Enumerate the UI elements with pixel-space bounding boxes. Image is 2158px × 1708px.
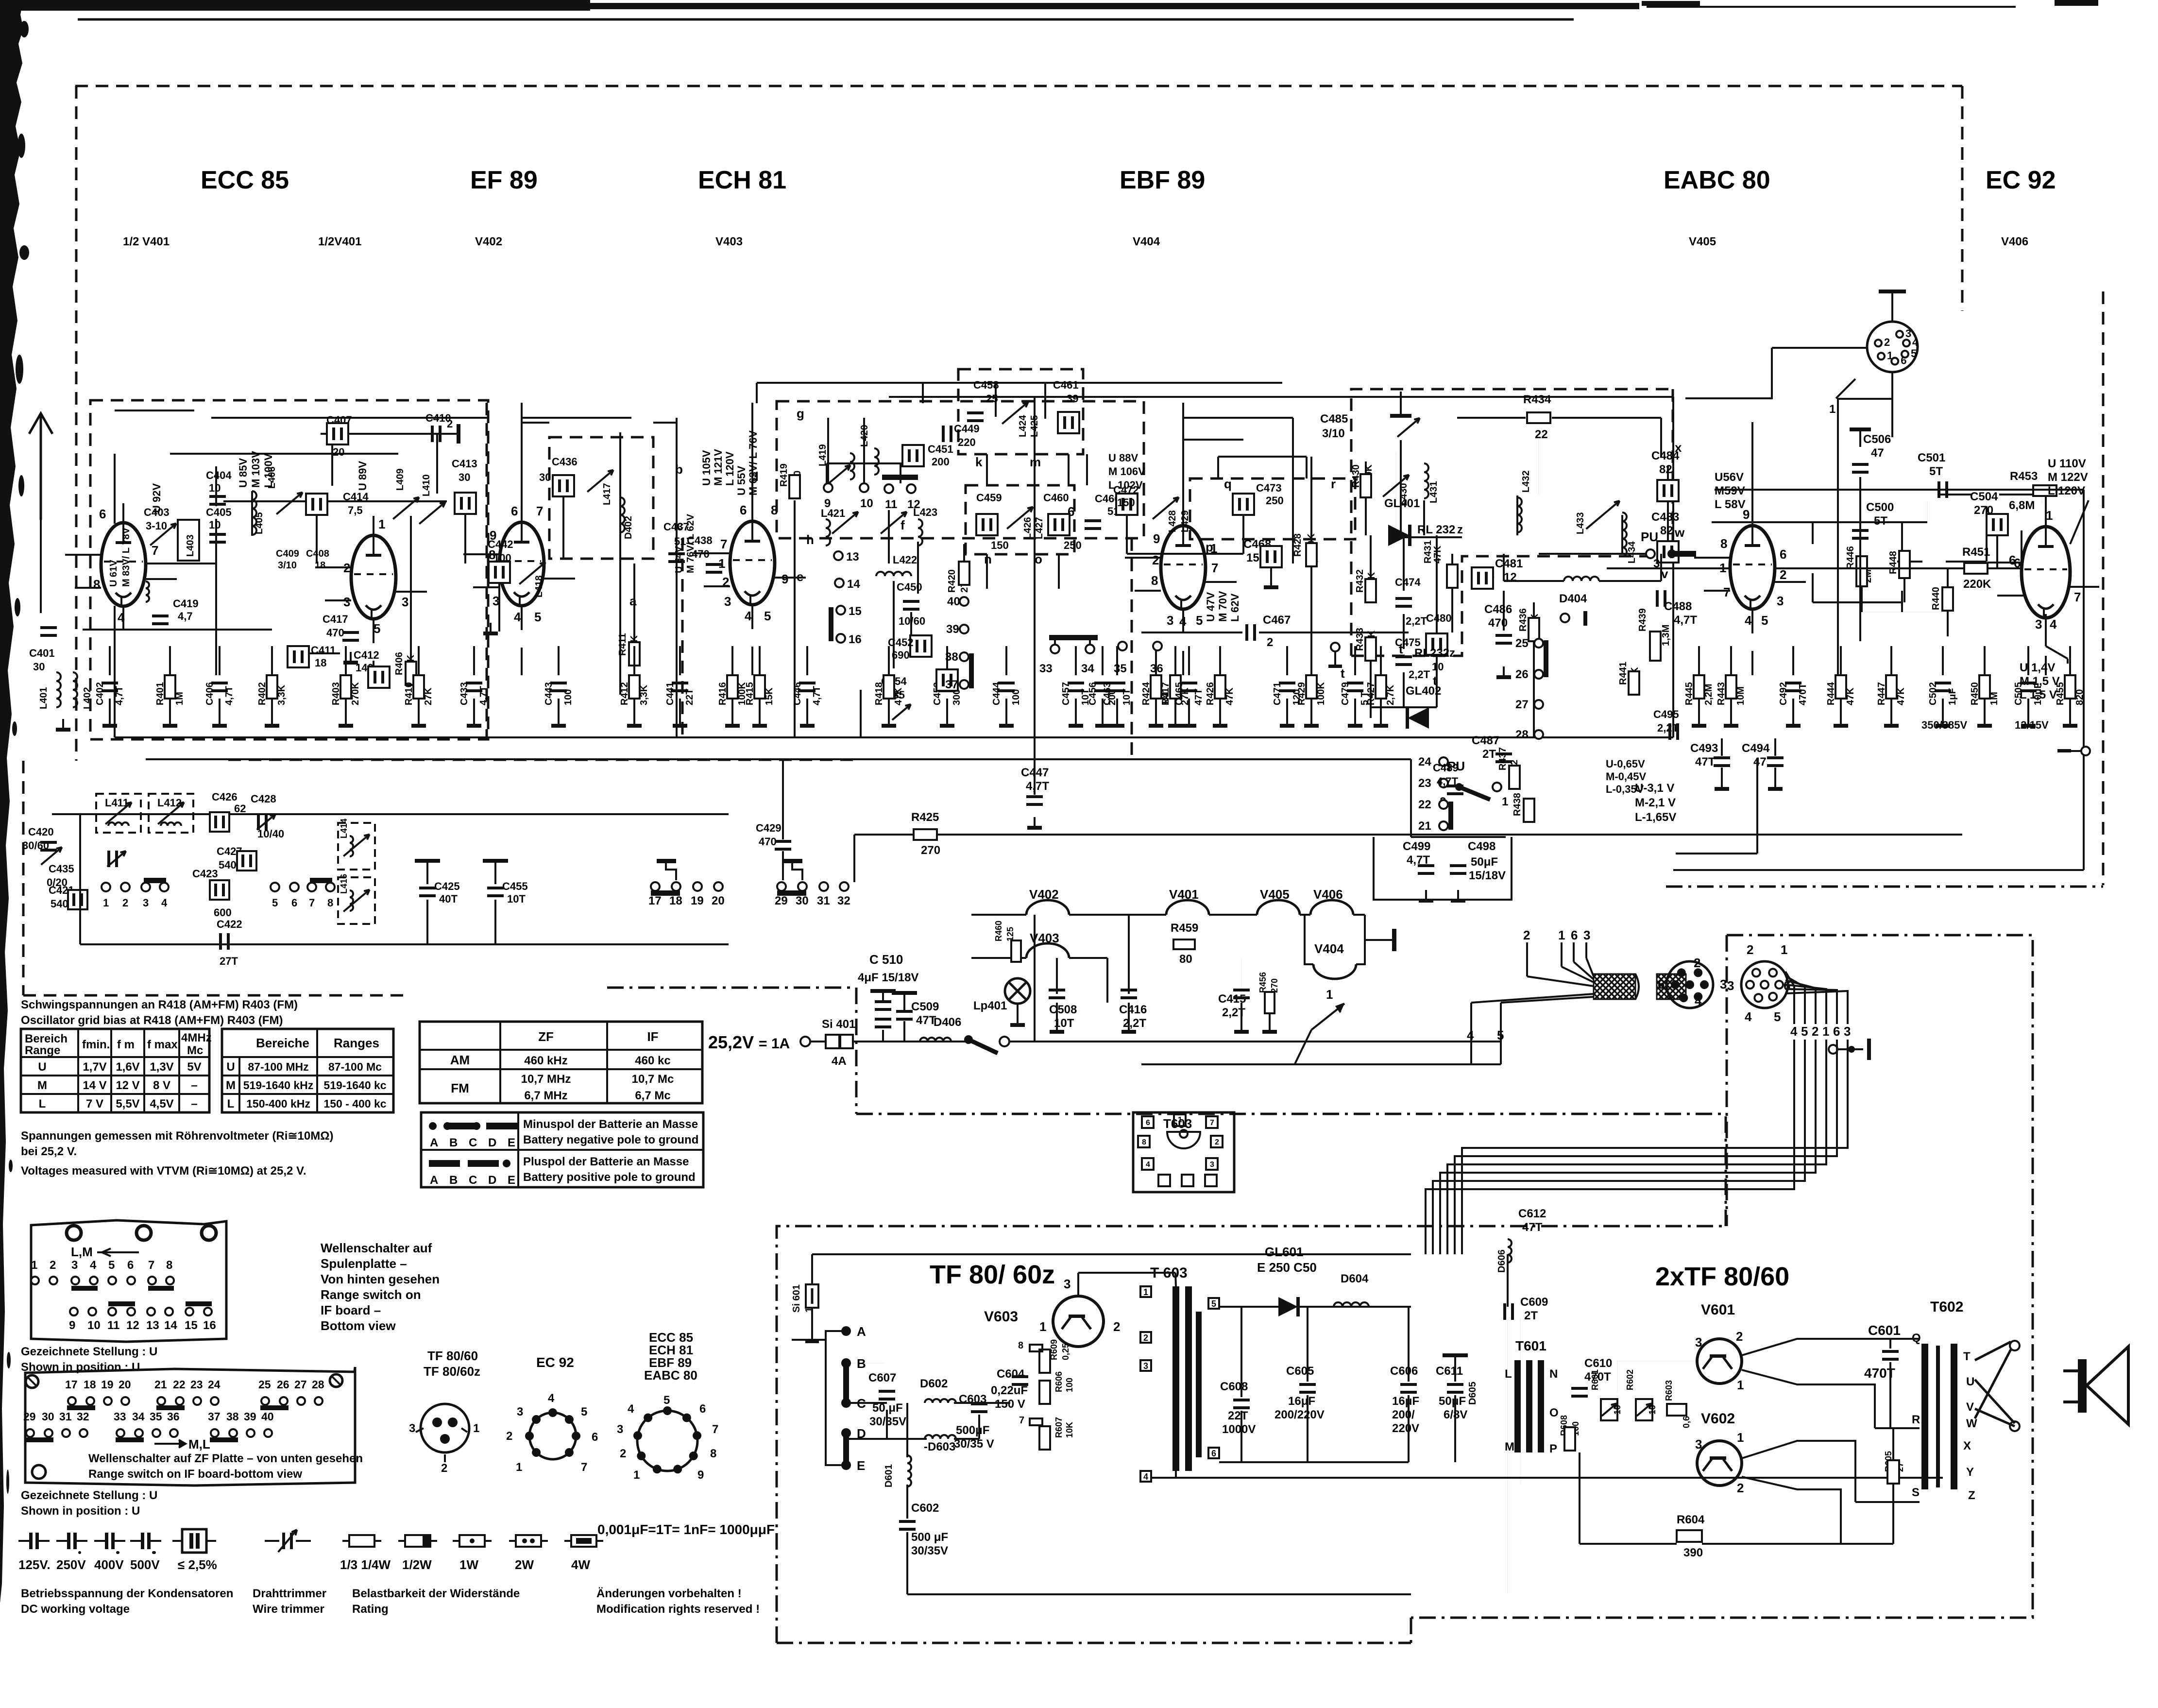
svg-text:21: 21: [154, 1378, 167, 1391]
svg-text:29: 29: [775, 894, 788, 907]
svg-text:2: 2: [1736, 1329, 1743, 1344]
svg-text:ECC 85: ECC 85: [201, 166, 289, 194]
svg-text:N: N: [1549, 1367, 1558, 1381]
svg-text:Pluspol der Batterie an Masse: Pluspol der Batterie an Masse: [523, 1155, 689, 1168]
svg-text:Shown in position : U: Shown in position : U: [21, 1504, 140, 1518]
svg-text:L429: L429: [1180, 510, 1190, 532]
svg-text:V401: V401: [1169, 887, 1199, 902]
svg-text:q: q: [1224, 477, 1232, 491]
svg-text:Drahttrimmer: Drahttrimmer: [253, 1587, 326, 1600]
svg-text:M 106V: M 106V: [1108, 465, 1145, 478]
svg-text:R402: R402: [257, 682, 268, 705]
svg-text:47T: 47T: [1193, 689, 1204, 705]
svg-text:R424: R424: [1141, 682, 1152, 705]
svg-text:L 62V: L 62V: [1229, 593, 1241, 622]
svg-text:Betriebsspannung der Kondens: Betriebsspannung der Kondensatoren: [21, 1587, 233, 1600]
svg-text:4,5V: 4,5V: [150, 1097, 173, 1110]
svg-text:C474: C474: [1395, 576, 1421, 588]
svg-text:3: 3: [1064, 1277, 1071, 1291]
svg-text:C416: C416: [1119, 1003, 1147, 1016]
svg-text:C459: C459: [976, 492, 1002, 504]
svg-text:7: 7: [2074, 590, 2081, 604]
svg-text:V402: V402: [1029, 887, 1059, 902]
svg-text:C461: C461: [1053, 379, 1079, 391]
svg-text:X: X: [1963, 1439, 1971, 1452]
svg-text:47T: 47T: [1522, 1221, 1543, 1234]
svg-text:20: 20: [119, 1378, 131, 1391]
svg-text:t: t: [1341, 666, 1345, 681]
svg-text:1: 1: [1178, 1116, 1182, 1124]
svg-text:4: 4: [2050, 617, 2057, 632]
svg-text:28: 28: [1515, 728, 1529, 741]
svg-text:540: 540: [51, 898, 68, 910]
svg-text:16μF: 16μF: [1288, 1395, 1315, 1408]
svg-text:L412: L412: [157, 797, 182, 809]
svg-text:Voltages measured with VTVM: Voltages measured with VTVM (Ri≅10MΩ) at…: [21, 1164, 306, 1178]
svg-text:Bereiche: Bereiche: [256, 1036, 309, 1050]
svg-text:82: 82: [1660, 524, 1673, 537]
svg-text:M 70V: M 70V: [1217, 591, 1229, 622]
svg-text:1M: 1M: [1160, 692, 1171, 705]
svg-text:4: 4: [1790, 1024, 1798, 1039]
svg-text:C417: C417: [323, 613, 348, 625]
svg-text:4: 4: [514, 610, 521, 624]
svg-text:1/2V401: 1/2V401: [318, 235, 361, 248]
svg-text:C601: C601: [1868, 1323, 1901, 1338]
svg-text:8 V: 8 V: [153, 1079, 170, 1092]
svg-text:4,7T: 4,7T: [1026, 780, 1049, 793]
svg-text:C409: C409: [276, 548, 299, 559]
svg-text:3: 3: [1695, 1335, 1702, 1349]
svg-text:GL601: GL601: [1265, 1245, 1304, 1259]
svg-text:C495: C495: [1653, 708, 1679, 720]
svg-text:0,25: 0,25: [1061, 1343, 1071, 1360]
svg-text:L 58V: L 58V: [1715, 498, 1746, 511]
svg-text:h: h: [806, 532, 814, 547]
svg-text:34: 34: [132, 1410, 145, 1423]
svg-text:1: 1: [2046, 508, 2053, 523]
svg-text:10μF: 10μF: [2033, 683, 2043, 705]
svg-text:L428: L428: [1167, 510, 1178, 532]
svg-text:R606: R606: [1054, 1371, 1064, 1392]
svg-text:4A: 4A: [832, 1055, 847, 1068]
svg-text:L419: L419: [817, 444, 828, 466]
svg-text:19: 19: [101, 1378, 114, 1391]
svg-text:47K: 47K: [1896, 687, 1906, 705]
svg-text:4: 4: [90, 1259, 97, 1272]
svg-text:C604: C604: [997, 1367, 1025, 1381]
svg-text:C481: C481: [1495, 557, 1523, 570]
svg-text:Si 401: Si 401: [822, 1018, 855, 1031]
svg-text:R439: R439: [1637, 608, 1648, 632]
svg-text:2,2T: 2,2T: [1123, 1017, 1146, 1030]
svg-text:1M: 1M: [174, 692, 185, 705]
svg-text:5: 5: [663, 1394, 670, 1407]
svg-text:4: 4: [1745, 613, 1752, 628]
svg-text:R428: R428: [1292, 533, 1303, 557]
svg-text:AM: AM: [450, 1053, 470, 1067]
svg-text:34: 34: [1081, 662, 1094, 675]
svg-text:2: 2: [1747, 942, 1753, 957]
svg-text:M 121V: M 121V: [712, 449, 724, 486]
svg-text:4: 4: [548, 1392, 555, 1405]
svg-text:1: 1: [1829, 403, 1835, 416]
svg-text:5: 5: [108, 1259, 115, 1272]
svg-text:C422: C422: [217, 918, 242, 930]
svg-text:12/15V: 12/15V: [2015, 719, 2049, 731]
svg-text:5: 5: [374, 621, 380, 636]
svg-text:D402: D402: [623, 516, 634, 539]
svg-text:L 100V: L 100V: [262, 453, 274, 488]
svg-text:18: 18: [315, 560, 325, 571]
svg-text:Spulenplatte –: Spulenplatte –: [321, 1256, 407, 1271]
svg-text:35: 35: [150, 1410, 162, 1423]
svg-text:6: 6: [127, 1259, 134, 1272]
svg-text:U 110V: U 110V: [2048, 457, 2086, 470]
svg-text:R440: R440: [1931, 587, 1941, 610]
svg-text:L: L: [39, 1097, 46, 1110]
svg-text:R447: R447: [1876, 682, 1887, 705]
svg-text:8: 8: [710, 1447, 716, 1460]
svg-text:25,2V: 25,2V: [708, 1032, 754, 1052]
svg-text:22T: 22T: [684, 689, 695, 705]
svg-text:O: O: [1549, 1406, 1559, 1419]
svg-text:D602: D602: [920, 1377, 948, 1390]
svg-text:M,L: M,L: [188, 1437, 210, 1452]
svg-text:540: 540: [219, 859, 237, 871]
svg-text:22: 22: [1418, 798, 1431, 811]
svg-text:V603: V603: [984, 1309, 1018, 1325]
svg-text:M 76V/ L 62V: M 76V/ L 62V: [685, 513, 696, 573]
svg-text:0,6: 0,6: [1682, 1416, 1691, 1428]
svg-text:3: 3: [1583, 928, 1590, 942]
svg-text:37: 37: [208, 1410, 221, 1423]
svg-text:C413: C413: [452, 458, 477, 470]
svg-text:470: 470: [326, 627, 344, 639]
svg-text:R448: R448: [1888, 551, 1899, 574]
svg-text:100: 100: [563, 689, 574, 705]
svg-text:V405: V405: [1260, 887, 1290, 902]
svg-text:R604: R604: [1677, 1513, 1705, 1526]
svg-text:5: 5: [1774, 1009, 1781, 1024]
svg-text:C: C: [469, 1136, 477, 1149]
svg-text:V: V: [1966, 1401, 1974, 1414]
svg-text:D601: D601: [884, 1464, 894, 1487]
svg-text:RL 232: RL 232: [1417, 523, 1455, 536]
svg-text:7: 7: [712, 1423, 718, 1436]
svg-text:R444: R444: [1826, 682, 1836, 705]
svg-text:GL402: GL402: [1406, 684, 1441, 698]
svg-text:U: U: [226, 1060, 235, 1074]
svg-text:31: 31: [59, 1410, 72, 1423]
svg-text:C605: C605: [1286, 1365, 1314, 1378]
svg-text:R427: R427: [1366, 682, 1376, 705]
svg-text:D406: D406: [934, 1016, 961, 1029]
svg-text:= 1A: = 1A: [759, 1036, 790, 1052]
svg-text:40T: 40T: [439, 893, 458, 905]
svg-text:10T: 10T: [1080, 689, 1091, 705]
svg-text:30: 30: [539, 471, 551, 483]
svg-text:8: 8: [1720, 536, 1727, 551]
svg-text:fmin.: fmin.: [82, 1038, 110, 1051]
svg-text:1000V: 1000V: [1222, 1423, 1256, 1436]
svg-text:M: M: [226, 1079, 236, 1092]
svg-text:6: 6: [592, 1431, 598, 1444]
svg-text:200/: 200/: [1392, 1408, 1415, 1421]
svg-text:C489: C489: [1433, 762, 1459, 774]
svg-text:150-400 kHz: 150-400 kHz: [246, 1097, 310, 1110]
svg-text:C405: C405: [206, 506, 232, 518]
svg-text:3: 3: [409, 1422, 415, 1435]
svg-text:1: 1: [516, 1461, 522, 1474]
svg-text:C504: C504: [1970, 490, 1998, 503]
svg-text:R443: R443: [1716, 682, 1727, 705]
svg-text:IF board –: IF board –: [321, 1303, 381, 1317]
svg-text:R433: R433: [1355, 628, 1365, 651]
svg-text:3: 3: [517, 1405, 523, 1418]
svg-text:15/18V: 15/18V: [1469, 869, 1506, 882]
svg-text:6: 6: [1833, 1024, 1840, 1039]
svg-text:Si 601: Si 601: [791, 1284, 802, 1313]
svg-text:Belastbarkeit der Widerständ: Belastbarkeit der Widerstände: [352, 1587, 520, 1600]
svg-text:Wire trimmer: Wire trimmer: [253, 1603, 324, 1616]
svg-text:C611: C611: [1436, 1365, 1463, 1378]
svg-text:0,001μF=1T= 1nF= 1000μμF: 0,001μF=1T= 1nF= 1000μμF: [597, 1522, 775, 1537]
svg-text:6: 6: [1146, 1119, 1150, 1127]
svg-text:270K: 270K: [350, 682, 361, 705]
svg-text:EC 92: EC 92: [536, 1355, 574, 1370]
svg-text:10T: 10T: [507, 893, 526, 905]
svg-text:EF 89: EF 89: [470, 166, 538, 194]
svg-text:2: 2: [1113, 1319, 1120, 1334]
svg-text:C446: C446: [792, 682, 803, 705]
svg-text:ECH 81: ECH 81: [698, 166, 786, 194]
svg-text:2T: 2T: [1524, 1309, 1538, 1322]
svg-text:1: 1: [1143, 1287, 1148, 1297]
svg-text:U 54V: U 54V: [674, 546, 684, 573]
svg-text:37: 37: [945, 678, 958, 691]
svg-text:125: 125: [1005, 927, 1015, 941]
svg-text:L433: L433: [1575, 512, 1586, 534]
svg-text:10/60: 10/60: [899, 615, 925, 627]
svg-text:M 63V/ L 76V: M 63V/ L 76V: [747, 430, 759, 495]
svg-text:4μF 15/18V: 4μF 15/18V: [858, 971, 918, 984]
svg-text:L431: L431: [1428, 481, 1439, 503]
svg-text:R441: R441: [1618, 662, 1629, 685]
svg-text:R436: R436: [1518, 608, 1529, 632]
svg-text:C508: C508: [1049, 1003, 1077, 1016]
svg-text:C499: C499: [1403, 840, 1430, 853]
svg-text:Bereich: Bereich: [25, 1032, 68, 1045]
svg-text:10/40: 10/40: [257, 828, 284, 840]
svg-text:C607: C607: [868, 1371, 896, 1384]
svg-text:1: 1: [1326, 987, 1333, 1002]
svg-text:3: 3: [402, 595, 408, 609]
svg-text:6: 6: [2009, 553, 2016, 567]
svg-text:R437: R437: [1497, 747, 1508, 770]
svg-text:7: 7: [1211, 561, 1218, 575]
svg-text:IF: IF: [647, 1029, 658, 1044]
svg-text:C457: C457: [1061, 682, 1071, 705]
svg-text:E: E: [508, 1136, 515, 1149]
svg-text:3: 3: [71, 1259, 78, 1272]
svg-text:B: B: [857, 1356, 866, 1371]
svg-text:39: 39: [946, 623, 959, 636]
svg-text:R403: R403: [331, 682, 341, 705]
svg-text:D404: D404: [1559, 592, 1587, 605]
svg-text:0,22uF: 0,22uF: [991, 1384, 1028, 1397]
svg-text:R445: R445: [1684, 682, 1695, 705]
svg-text:11: 11: [885, 498, 897, 511]
svg-text:4,7: 4,7: [178, 610, 193, 622]
svg-text:4,7T: 4,7T: [1674, 614, 1697, 627]
svg-text:270: 270: [1270, 978, 1279, 993]
svg-text:L401: L401: [38, 687, 49, 709]
svg-text:2: 2: [447, 418, 453, 430]
svg-text:9: 9: [697, 1469, 704, 1482]
svg-text:3: 3: [724, 594, 731, 609]
svg-text:T602: T602: [1930, 1299, 1963, 1315]
svg-text:24: 24: [1418, 755, 1431, 769]
svg-text:Y: Y: [1966, 1466, 1974, 1479]
svg-text:3: 3: [1844, 1024, 1851, 1039]
svg-text:1: 1: [1039, 1319, 1046, 1334]
svg-text:R609: R609: [1049, 1339, 1059, 1360]
svg-text:13: 13: [846, 550, 859, 564]
svg-text:L420: L420: [859, 425, 870, 447]
svg-text:31: 31: [817, 894, 830, 907]
svg-text:M 103V: M 103V: [250, 451, 262, 488]
svg-text:16: 16: [849, 633, 862, 646]
svg-text:600: 600: [214, 906, 232, 919]
svg-text:1W: 1W: [459, 1557, 478, 1572]
svg-text:C460: C460: [1043, 492, 1069, 504]
svg-text:4,7T: 4,7T: [812, 686, 822, 705]
svg-text:6,8M: 6,8M: [2009, 499, 2035, 512]
svg-text:U 88V: U 88V: [1108, 452, 1138, 464]
svg-text:C606: C606: [1390, 1365, 1418, 1378]
svg-text:6,7 Mc: 6,7 Mc: [635, 1089, 670, 1102]
svg-text:7: 7: [536, 504, 543, 518]
svg-text:2,2T: 2,2T: [1409, 668, 1430, 681]
svg-text:3: 3: [1167, 613, 1173, 628]
svg-text:B: B: [449, 1136, 458, 1149]
svg-text:350/385V: 350/385V: [1921, 719, 1968, 731]
svg-text:1: 1: [1502, 795, 1508, 808]
svg-text:12: 12: [126, 1319, 139, 1332]
svg-text:5,5V: 5,5V: [116, 1097, 139, 1110]
svg-text:40: 40: [947, 595, 960, 608]
svg-text:EABC 80: EABC 80: [1664, 166, 1770, 194]
svg-text:87-100 Mc: 87-100 Mc: [328, 1060, 382, 1073]
svg-text:3: 3: [1143, 1361, 1148, 1371]
svg-text:2W: 2W: [515, 1557, 534, 1572]
svg-text:2: 2: [1694, 956, 1700, 970]
svg-text:L,M: L,M: [71, 1245, 93, 1259]
svg-text:17: 17: [65, 1378, 78, 1391]
svg-text:R601: R601: [1590, 1369, 1600, 1390]
svg-text:L418: L418: [534, 575, 544, 598]
svg-text:C483: C483: [1651, 511, 1679, 524]
svg-text:-D603: -D603: [924, 1440, 955, 1453]
svg-text:R432: R432: [1355, 569, 1365, 593]
svg-text:TF 80/ 60z: TF 80/ 60z: [930, 1260, 1055, 1289]
svg-text:U56V: U56V: [1715, 471, 1744, 484]
svg-text:25: 25: [1515, 637, 1529, 650]
svg-text:3: 3: [617, 1423, 623, 1436]
svg-text:7: 7: [1723, 585, 1730, 599]
svg-text:6: 6: [511, 504, 518, 518]
svg-text:14: 14: [164, 1319, 177, 1332]
svg-text:10,7 Mc: 10,7 Mc: [632, 1073, 674, 1086]
svg-text:10M: 10M: [1735, 686, 1746, 705]
svg-text:19: 19: [691, 894, 704, 907]
svg-text:1,6V: 1,6V: [116, 1060, 139, 1074]
svg-text:4: 4: [1745, 1009, 1752, 1024]
svg-text:f m: f m: [117, 1038, 135, 1051]
svg-text:M: M: [37, 1079, 47, 1092]
svg-text:2: 2: [122, 897, 128, 909]
svg-text:5: 5: [534, 610, 541, 624]
svg-text:EBF 89: EBF 89: [1120, 166, 1205, 194]
svg-text:8: 8: [93, 577, 100, 592]
svg-text:L432: L432: [1521, 470, 1531, 493]
svg-text:R419: R419: [779, 463, 789, 487]
svg-text:C408: C408: [306, 548, 329, 559]
svg-text:6: 6: [291, 897, 297, 909]
svg-text:R412: R412: [619, 682, 630, 705]
svg-text:10: 10: [1613, 1405, 1622, 1415]
svg-text:7: 7: [148, 1259, 154, 1272]
svg-text:L: L: [227, 1097, 235, 1110]
svg-text:5: 5: [1497, 1028, 1504, 1042]
svg-text:L: L: [1505, 1367, 1512, 1381]
svg-text:27K: 27K: [423, 687, 434, 705]
svg-text:A: A: [857, 1324, 866, 1339]
svg-text:4: 4: [1146, 1161, 1150, 1169]
svg-text:3,3K: 3,3K: [639, 684, 649, 705]
svg-text:4: 4: [1467, 1028, 1474, 1042]
svg-text:1: 1: [378, 517, 385, 531]
svg-text:21: 21: [1418, 820, 1431, 833]
svg-text:D: D: [488, 1136, 496, 1149]
svg-text:1: 1: [1737, 1430, 1744, 1445]
svg-text:L427: L427: [1034, 517, 1045, 539]
svg-text:7: 7: [1210, 1119, 1214, 1127]
svg-text:C494: C494: [1742, 742, 1770, 755]
svg-text:C509: C509: [911, 1000, 939, 1013]
svg-text:g: g: [797, 406, 804, 421]
svg-text:470T: 470T: [1798, 683, 1808, 705]
svg-text:Ranges: Ranges: [334, 1036, 379, 1050]
svg-text:460 kc: 460 kc: [635, 1054, 670, 1067]
svg-text:≤ 2,5%: ≤ 2,5%: [178, 1557, 217, 1572]
svg-text:1,3V: 1,3V: [150, 1060, 173, 1074]
svg-text:200: 200: [932, 456, 950, 468]
svg-text:5: 5: [1911, 347, 1917, 359]
svg-text:470: 470: [1488, 616, 1508, 630]
svg-text:1: 1: [31, 1259, 37, 1272]
svg-text:2: 2: [506, 1430, 512, 1443]
svg-text:R429: R429: [1296, 682, 1307, 705]
svg-text:100K: 100K: [1316, 682, 1326, 705]
svg-text:1: 1: [473, 1422, 479, 1435]
svg-text:C609: C609: [1520, 1296, 1548, 1309]
svg-text:ZF: ZF: [538, 1029, 554, 1044]
svg-text:690: 690: [892, 649, 910, 661]
svg-text:8: 8: [166, 1259, 172, 1272]
svg-text:1: 1: [103, 897, 109, 909]
